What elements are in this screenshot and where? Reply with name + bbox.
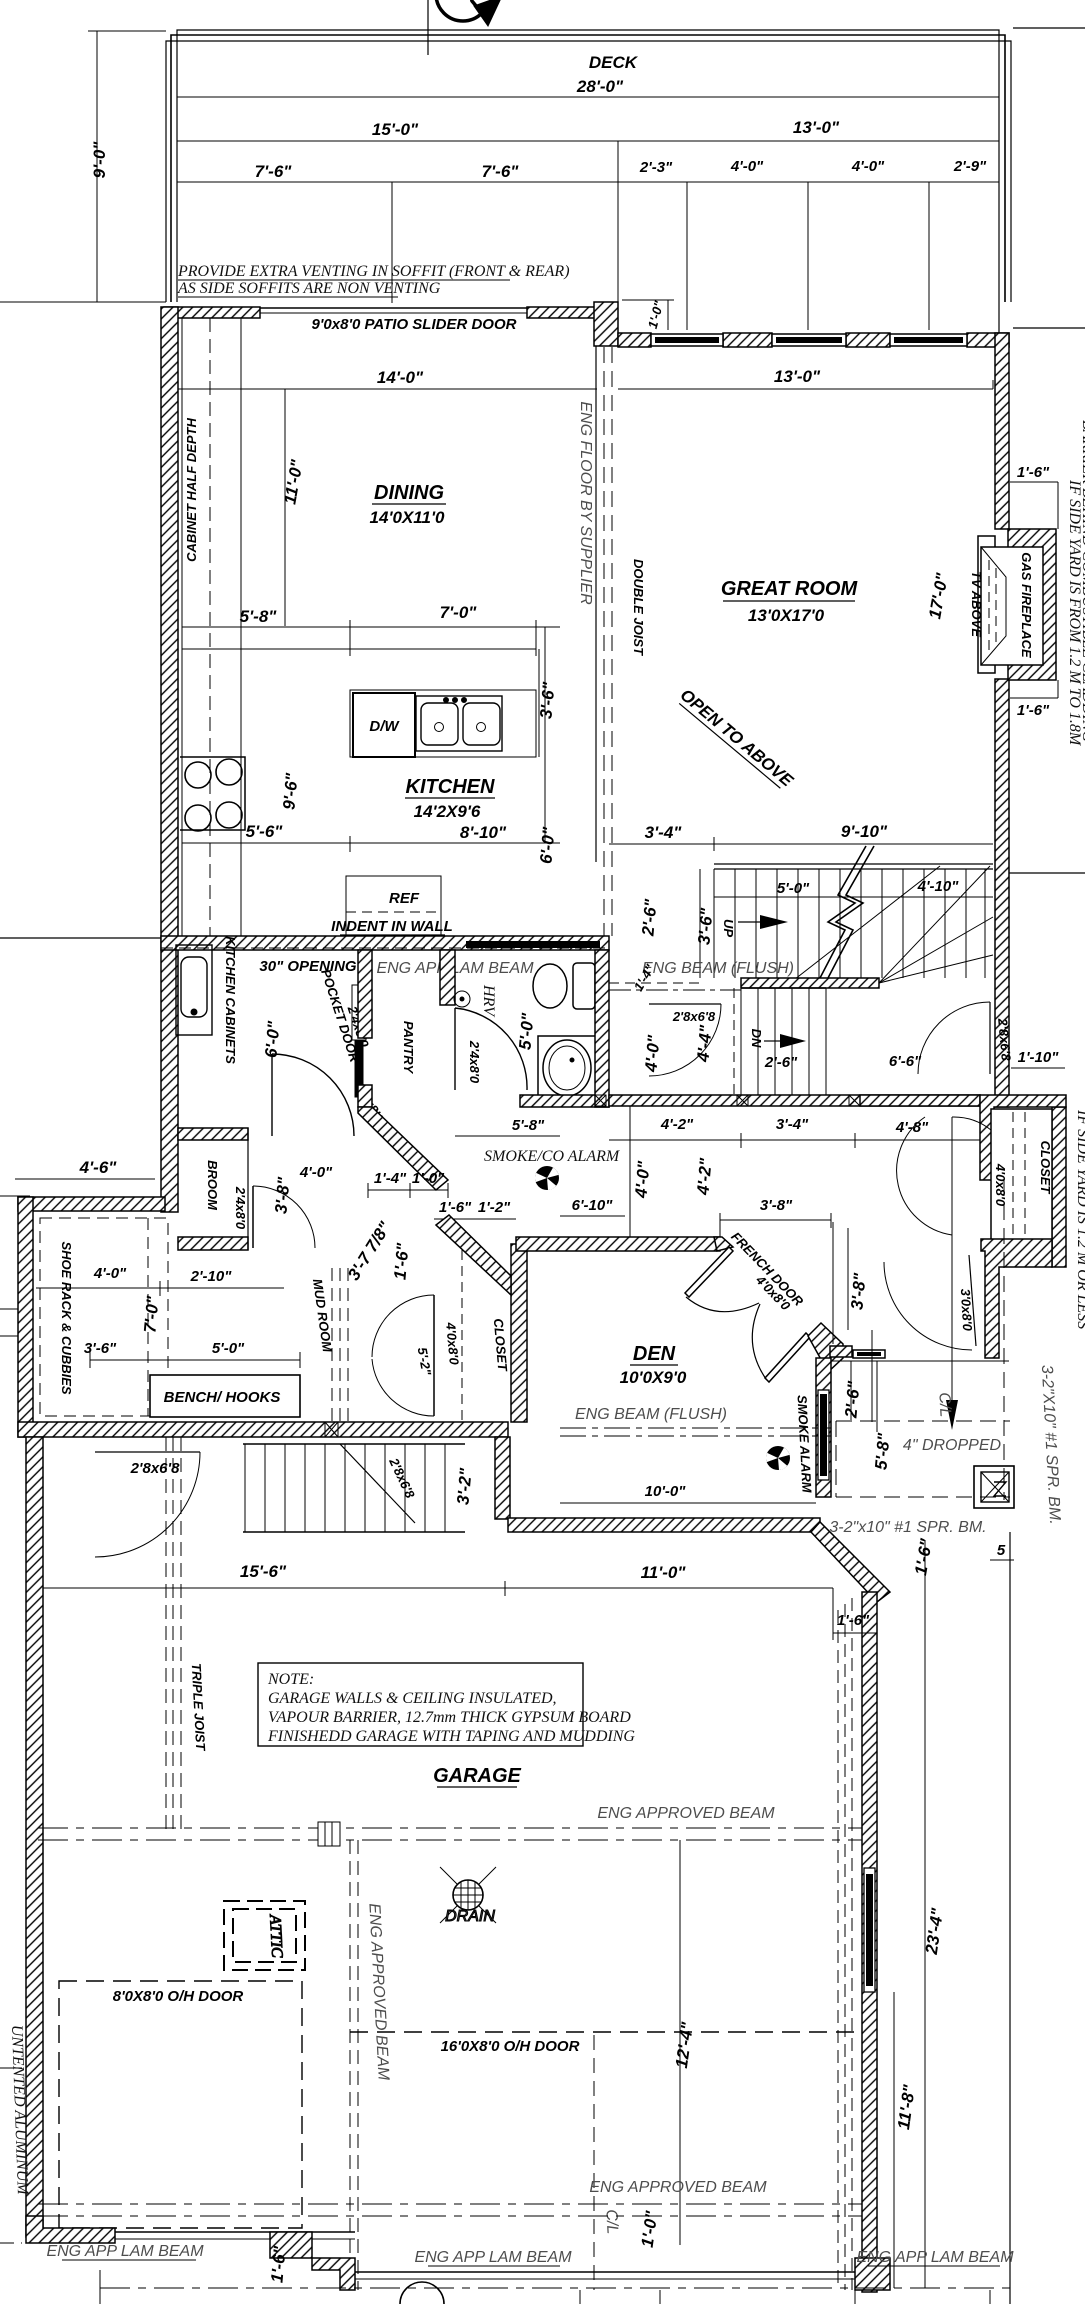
svg-text:DINING: DINING xyxy=(374,482,444,504)
svg-text:5'-0": 5'-0" xyxy=(777,880,810,897)
wall: pantry diagonal xyxy=(358,1107,448,1190)
front garage beam dashed xyxy=(38,2204,862,2216)
double joist dashed lines xyxy=(603,347,605,936)
svg-text:4'-0": 4'-0" xyxy=(641,1033,663,1073)
garage label xyxy=(433,1765,521,1787)
wall: garage front left corner xyxy=(26,2216,115,2243)
stair break line xyxy=(820,846,874,978)
svg-text:ENG FLOOR BY SUPPLIER: ENG FLOOR BY SUPPLIER xyxy=(577,401,594,605)
note box xyxy=(258,1663,635,1746)
kitchen cabinets sink (below wall) xyxy=(176,945,212,1035)
stair treads lower (DN) xyxy=(741,988,826,1095)
svg-text:1'-4": 1'-4" xyxy=(374,1170,407,1187)
french door leaf west xyxy=(685,1247,733,1297)
deck outline triple lines xyxy=(166,30,1011,333)
svg-text:1'-6": 1'-6" xyxy=(1017,702,1050,719)
svg-text:3'-8": 3'-8" xyxy=(847,1271,869,1310)
wall: hall diagonal lower xyxy=(436,1215,511,1295)
den east window/door bar xyxy=(818,1390,829,1480)
door 2'8x6'8 to garage xyxy=(95,1452,200,1557)
REF box xyxy=(346,876,441,936)
svg-text:14'0X11'0: 14'0X11'0 xyxy=(370,508,445,527)
beam splice mark xyxy=(318,1822,340,1846)
DN label and arrow xyxy=(749,1029,806,1048)
wall: mudroom west (exterior) xyxy=(18,1197,33,1437)
svg-text:DRAIN: DRAIN xyxy=(445,1908,495,1925)
svg-text:1'-2": 1'-2" xyxy=(478,1199,511,1216)
svg-text:4'-10": 4'-10" xyxy=(917,878,960,895)
svg-text:9'-0": 9'-0" xyxy=(90,141,109,179)
french door leaf south xyxy=(765,1333,810,1382)
svg-text:TV ABOVE: TV ABOVE xyxy=(969,571,984,637)
svg-text:8'-10": 8'-10" xyxy=(460,823,507,842)
wall: bath west wall xyxy=(440,950,455,1005)
kitchen label xyxy=(405,776,495,821)
den corner jamb wall xyxy=(808,1323,843,1372)
svg-text:ENG APPROVED BEAM: ENG APPROVED BEAM xyxy=(589,2179,767,2196)
island counter xyxy=(350,690,536,757)
svg-text:ENG APP LAM BEAM: ENG APP LAM BEAM xyxy=(46,2243,204,2260)
entry side wall stub xyxy=(830,1346,852,1357)
svg-text:28'-0": 28'-0" xyxy=(576,77,624,96)
wall: right of patio door xyxy=(527,307,597,318)
entry sidelight sill xyxy=(853,1350,885,1358)
svg-text:5'-0": 5'-0" xyxy=(212,1340,245,1357)
svg-text:6'-0": 6'-0" xyxy=(536,825,558,864)
svg-text:7'-0": 7'-0" xyxy=(440,603,478,622)
closet shelf dashed xyxy=(461,1250,463,1420)
window 2 xyxy=(772,334,846,346)
svg-text:1'-0": 1'-0" xyxy=(412,1170,445,1187)
stair treads upper xyxy=(714,869,985,978)
svg-text:15'-0": 15'-0" xyxy=(372,120,419,139)
svg-text:5'-0": 5'-0" xyxy=(515,1011,537,1050)
svg-text:3-2"x10" #1 SPR. BM.: 3-2"x10" #1 SPR. BM. xyxy=(829,1519,986,1536)
cooktop xyxy=(180,757,245,831)
svg-text:3'-4": 3'-4" xyxy=(776,1116,809,1133)
svg-text:5'-8": 5'-8" xyxy=(512,1117,545,1134)
wall: left exterior xyxy=(161,307,178,1212)
svg-text:9'-10": 9'-10" xyxy=(841,822,888,841)
door 2'8x6'8 hall xyxy=(649,1004,721,1076)
dining room label xyxy=(370,482,446,527)
svg-text:4'-2": 4'-2" xyxy=(693,1156,715,1196)
8x8 OH door dashed box xyxy=(59,1981,302,2228)
window 3 xyxy=(890,334,967,346)
indent in wall label xyxy=(331,918,453,935)
bottom dash-dot line xyxy=(100,2287,1010,2289)
junction x-box garage wall xyxy=(325,1422,338,1437)
fireplace xyxy=(978,529,1056,680)
pocket door pocket xyxy=(352,985,366,1097)
svg-text:5'-8": 5'-8" xyxy=(240,607,278,626)
patio slider door xyxy=(260,308,527,318)
svg-text:KITCHEN CABINETS: KITCHEN CABINETS xyxy=(223,936,238,1064)
wall: right exterior upper xyxy=(995,333,1009,529)
C/L garage front xyxy=(594,2035,621,2290)
svg-text:VAPOUR BARRIER, 12.7mm THICK: VAPOUR BARRIER, 12.7mm THICK GYPSUM BOAR… xyxy=(268,1709,631,1726)
wall: entry closet north xyxy=(860,1095,980,1106)
svg-text:10'0X9'0: 10'0X9'0 xyxy=(620,1368,687,1387)
svg-text:4'-6": 4'-6" xyxy=(79,1158,118,1177)
svg-text:AS SIDE SOFFITS ARE NON VENTIN: AS SIDE SOFFITS ARE NON VENTING xyxy=(177,280,441,297)
svg-text:D/W: D/W xyxy=(369,718,400,735)
wall: garage angled corner NE xyxy=(811,1522,890,1602)
svg-text:3'-6": 3'-6" xyxy=(536,680,558,719)
svg-text:GREAT ROOM: GREAT ROOM xyxy=(721,578,859,600)
svg-text:13'0X17'0: 13'0X17'0 xyxy=(748,606,825,625)
bath door arc 2'4x8'0 xyxy=(455,1008,527,1090)
wall: bath/stairs divider xyxy=(595,950,609,1107)
shoe rack dashed cubbies xyxy=(40,1218,168,1416)
svg-text:9'0x8'0 PATIO SLIDER DOOR: 9'0x8'0 PATIO SLIDER DOOR xyxy=(312,316,517,333)
8ft door sill xyxy=(115,2232,355,2239)
north arrow xyxy=(428,0,502,55)
svg-text:4'-2": 4'-2" xyxy=(660,1116,694,1133)
wall: mudroom north (exterior) xyxy=(18,1197,165,1211)
svg-text:DN: DN xyxy=(749,1029,764,1048)
wall: top-left exterior (dining) xyxy=(164,307,260,318)
great room label xyxy=(721,578,859,625)
junction x-boxes xyxy=(595,1095,860,1106)
svg-text:GARAGE: GARAGE xyxy=(433,1765,521,1787)
mudroom closet doors xyxy=(372,1295,434,1416)
closet (entry) interior xyxy=(991,1109,1053,1251)
window 1 xyxy=(651,334,723,346)
svg-text:15'-6": 15'-6" xyxy=(240,1562,287,1581)
den label xyxy=(620,1343,687,1387)
svg-text:11'-0": 11'-0" xyxy=(641,1563,687,1582)
wall: kitchen south wall xyxy=(161,936,609,950)
svg-text:2'-9": 2'-9" xyxy=(953,158,987,175)
svg-text:3'0x8'0: 3'0x8'0 xyxy=(958,1288,975,1332)
svg-text:2'-6": 2'-6" xyxy=(638,897,660,937)
svg-text:1'-10": 1'-10" xyxy=(1018,1049,1060,1066)
svg-text:5'-6": 5'-6" xyxy=(246,822,284,841)
svg-text:4'-0": 4'-0" xyxy=(851,158,885,175)
wall: mudroom closet west xyxy=(511,1244,527,1422)
svg-text:ATTIC: ATTIC xyxy=(266,1913,285,1958)
svg-text:3'-4": 3'-4" xyxy=(645,823,683,842)
wall: den east xyxy=(816,1358,831,1497)
svg-text:HRV: HRV xyxy=(480,984,497,1018)
dim 1'-0" at step xyxy=(622,299,674,331)
svg-text:5'-8": 5'-8" xyxy=(871,1431,893,1470)
wall: stair landing xyxy=(741,978,879,988)
front door 3'0x8'0 xyxy=(884,1255,976,1350)
svg-text:4'-0": 4'-0" xyxy=(730,158,764,175)
wall: step block at great room corner xyxy=(594,302,618,346)
stair winder lines xyxy=(790,866,993,983)
svg-text:4'-0": 4'-0" xyxy=(93,1265,127,1282)
drain xyxy=(440,1867,496,1925)
french door diagonal opening xyxy=(685,1222,1009,1432)
bench hooks xyxy=(150,1375,300,1417)
svg-text:SMOKE/CO ALARM: SMOKE/CO ALARM xyxy=(484,1148,621,1165)
broom door arc xyxy=(253,1186,315,1248)
svg-text:3'-6": 3'-6" xyxy=(84,1340,117,1357)
svg-text:GAS FIREPLACE: GAS FIREPLACE xyxy=(1019,552,1034,658)
wall: garage east xyxy=(862,1592,877,2292)
svg-text:6'-10": 6'-10" xyxy=(572,1197,614,1214)
svg-text:1'-6": 1'-6" xyxy=(390,1241,412,1280)
wall: hall south xyxy=(609,1095,980,1106)
dim 9'-0" left xyxy=(0,31,166,302)
svg-text:4'0x8'0: 4'0x8'0 xyxy=(993,1163,1008,1207)
dn dashed jamb xyxy=(733,988,735,1095)
post with X xyxy=(974,1466,1014,1508)
wall: step down to den level xyxy=(495,1437,510,1519)
left edge small lines xyxy=(0,1309,22,2243)
HRV xyxy=(454,984,497,1018)
bottom edge marks xyxy=(100,2270,990,2304)
svg-text:GARAGE WALLS & CEILING INSULAT: GARAGE WALLS & CEILING INSULATED, xyxy=(268,1690,557,1707)
window center ticks xyxy=(391,182,393,303)
svg-text:2'-6": 2'-6" xyxy=(841,1379,863,1419)
great room open edge line xyxy=(595,346,597,862)
smoke/co alarm symbol xyxy=(535,1166,559,1190)
svg-text:2'4x8'0: 2'4x8'0 xyxy=(233,1186,248,1230)
svg-text:BROOM: BROOM xyxy=(205,1160,220,1211)
kitchen counter line xyxy=(182,648,536,650)
wall: below entry closet xyxy=(981,1239,1052,1358)
svg-text:6'-6": 6'-6" xyxy=(889,1053,922,1070)
svg-text:14'2X9'6: 14'2X9'6 xyxy=(414,802,481,821)
svg-text:3'-2": 3'-2" xyxy=(453,1466,475,1505)
wall: entry closet step xyxy=(980,1095,1066,1180)
svg-text:1'-6": 1'-6" xyxy=(267,2244,289,2283)
svg-text:2'8x6'8: 2'8x6'8 xyxy=(672,1009,716,1024)
smoke alarm symbol den xyxy=(766,1446,790,1470)
wall: garage west xyxy=(26,1437,43,2237)
svg-text:NOTE:: NOTE: xyxy=(267,1671,314,1688)
svg-text:3'-8": 3'-8" xyxy=(760,1197,793,1214)
svg-text:BENCH/ HOOKS: BENCH/ HOOKS xyxy=(164,1389,281,1406)
svg-text:13'-0": 13'-0" xyxy=(793,118,840,137)
svg-text:16'0X8'0 O/H DOOR: 16'0X8'0 O/H DOOR xyxy=(441,2038,580,2055)
svg-text:4'-8": 4'-8" xyxy=(895,1119,929,1136)
wall: bath south xyxy=(520,1095,609,1107)
wall: den north xyxy=(516,1237,720,1251)
broom closet xyxy=(178,1128,248,1250)
french door arc west xyxy=(686,1297,759,1312)
rear garage beam dashed xyxy=(38,1828,862,1840)
wall: front jog block xyxy=(270,2232,312,2258)
svg-text:2'-10": 2'-10" xyxy=(190,1268,233,1285)
svg-text:2'8x6'8: 2'8x6'8 xyxy=(130,1460,181,1477)
svg-text:7'-6": 7'-6" xyxy=(255,162,293,181)
wall: mudroom/garage south (left) xyxy=(18,1422,508,1437)
C/L centerline xyxy=(935,1117,958,1430)
svg-text:ENG APPROVED BEAM: ENG APPROVED BEAM xyxy=(597,1805,775,1822)
svg-text:ENG APP LAM BEAM: ENG APP LAM BEAM xyxy=(856,2249,1014,2266)
svg-text:9'-6": 9'-6" xyxy=(279,771,301,810)
svg-text:UP: UP xyxy=(721,919,736,937)
16x8 OH door dashed lines xyxy=(350,2031,862,2033)
svg-text:DOUBLE JOIST: DOUBLE JOIST xyxy=(631,559,646,656)
french door arc south xyxy=(752,1304,766,1379)
dim 12'-4" xyxy=(672,1840,697,2245)
property line right mid xyxy=(1009,872,1085,874)
property line left at kitchen wall xyxy=(0,937,161,939)
svg-text:REF: REF xyxy=(389,890,420,907)
svg-text:BARRIER BEHIND COMBUSTIBLE CLA: BARRIER BEHIND COMBUSTIBLE CLADDING xyxy=(1079,420,1085,743)
wall: front step piece xyxy=(312,2258,355,2290)
svg-text:KITCHEN: KITCHEN xyxy=(406,776,495,798)
svg-text:SHOE RACK & CUBBIES: SHOE RACK & CUBBIES xyxy=(59,1241,74,1394)
property line top right xyxy=(1013,27,1085,29)
svg-text:14'-0": 14'-0" xyxy=(377,368,424,387)
vanity xyxy=(538,1036,596,1102)
svg-text:CABINET HALF DEPTH: CABINET HALF DEPTH xyxy=(184,418,199,562)
toilet xyxy=(533,963,595,1009)
svg-text:PANTRY: PANTRY xyxy=(401,1021,416,1075)
svg-text:C/L: C/L xyxy=(935,1392,953,1418)
16ft door sill xyxy=(355,2272,855,2279)
svg-text:13'-0": 13'-0" xyxy=(774,367,821,386)
svg-text:8'0X8'0 O/H DOOR: 8'0X8'0 O/H DOOR xyxy=(113,1988,244,2005)
svg-text:ENG BEAM (FLUSH): ENG BEAM (FLUSH) xyxy=(575,1406,727,1423)
bay divider dashed vertical xyxy=(350,1840,358,2290)
cabinet half depth lines xyxy=(181,318,183,936)
svg-text:5: 5 xyxy=(997,1542,1006,1559)
svg-text:ENG APP LAM BEAM: ENG APP LAM BEAM xyxy=(414,2249,572,2266)
svg-text:FINISHEDD GARAGE WITH TAPING A: FINISHEDD GARAGE WITH TAPING AND MUDDING xyxy=(267,1728,635,1745)
pantry door arc xyxy=(272,1054,354,1136)
wall: garage front right corner xyxy=(855,2258,890,2290)
wall: pantry east wall xyxy=(358,950,372,1038)
svg-text:7'-6": 7'-6" xyxy=(482,162,520,181)
svg-text:ENG BEAM (FLUSH): ENG BEAM (FLUSH) xyxy=(642,960,794,977)
dim 11'-8" xyxy=(894,1992,919,2288)
attic hatch xyxy=(224,1901,305,1970)
entry dropped dashed outline xyxy=(836,1180,1010,1500)
svg-text:1'-6": 1'-6" xyxy=(837,1612,870,1629)
svg-text:2'-3": 2'-3" xyxy=(639,159,673,176)
basement stairs xyxy=(243,1444,465,1532)
svg-text:4'-0": 4'-0" xyxy=(299,1164,333,1181)
svg-text:4'-0": 4'-0" xyxy=(631,1159,653,1199)
mudroom joist dashed xyxy=(332,1268,348,1422)
svg-text:DEN: DEN xyxy=(633,1343,676,1365)
svg-text:CLOSET: CLOSET xyxy=(1038,1141,1053,1195)
garage east window xyxy=(864,1868,875,1992)
svg-text:PROVIDE EXTRA VENTING IN SOFFI: PROVIDE EXTRA VENTING IN SOFFIT (FRONT &… xyxy=(177,263,570,280)
open to above xyxy=(676,685,797,791)
entry floor line xyxy=(830,1360,1009,1362)
double sink xyxy=(416,696,502,751)
door 2'8x6'8 right xyxy=(918,1002,1014,1074)
svg-text:6'-0": 6'-0" xyxy=(261,1019,283,1058)
wall: den south / garage north xyxy=(508,1518,820,1532)
svg-text:30" OPENING: 30" OPENING xyxy=(259,958,356,975)
property line right garage xyxy=(1009,1532,1011,2304)
UP label and arrow xyxy=(721,915,788,937)
wall: right exterior lower xyxy=(995,679,1009,1107)
svg-text:1'-6": 1'-6" xyxy=(439,1199,472,1216)
basement stair door diag xyxy=(340,1444,418,1523)
joist dashed lines along east wall xyxy=(838,1598,852,2290)
svg-text:DECK: DECK xyxy=(589,53,639,72)
svg-text:7'-0": 7'-0" xyxy=(140,1294,162,1333)
svg-text:C/L: C/L xyxy=(602,2209,620,2235)
dishwasher D/W xyxy=(353,693,415,757)
svg-text:10'-0": 10'-0" xyxy=(645,1483,687,1500)
wall: great room north wall with windows xyxy=(618,333,651,347)
stairs top double edge xyxy=(714,863,993,865)
svg-text:3'-6": 3'-6" xyxy=(694,906,716,945)
svg-text:INDENT IN WALL: INDENT IN WALL xyxy=(331,918,453,935)
svg-text:4" DROPPED: 4" DROPPED xyxy=(903,1437,1002,1454)
svg-text:3'-8": 3'-8" xyxy=(271,1175,293,1214)
svg-text:2'-6": 2'-6" xyxy=(764,1054,798,1071)
property line right of great room xyxy=(1013,327,1085,329)
triple joist dashed xyxy=(166,1437,181,1830)
svg-text:IF SIDE YARD IS 1.2 M OR LESS: IF SIDE YARD IS 1.2 M OR LESS xyxy=(1074,1109,1085,1329)
svg-text:2'4x8'0: 2'4x8'0 xyxy=(467,1040,482,1084)
wall: entry closet east xyxy=(1052,1107,1066,1267)
closet doors (entry, double arcs) xyxy=(897,1117,991,1235)
svg-text:1'-6": 1'-6" xyxy=(1017,464,1050,481)
